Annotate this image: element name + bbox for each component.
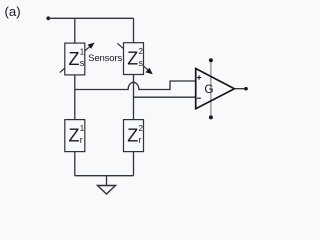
svg-text:G: G — [204, 82, 213, 96]
op-amp G (triangle) — [196, 69, 235, 109]
variable arrow of sensor Zs2 — [117, 43, 152, 74]
svg-text:2: 2 — [139, 124, 144, 133]
svg-text:s: s — [139, 58, 144, 68]
node IN (top-left terminal dot) — [46, 16, 50, 20]
svg-text:1: 1 — [80, 48, 85, 57]
svg-text:Z: Z — [127, 48, 138, 68]
svg-text:Z: Z — [127, 125, 138, 145]
wire node A to amplifier + input (with hop over right branch) — [75, 81, 196, 90]
node OUT (output terminal dot) — [244, 87, 248, 91]
svg-text:(a): (a) — [5, 4, 21, 19]
power rail bottom dot — [209, 115, 213, 119]
wire Zr2 bottom to ground rail — [133, 152, 135, 176]
svg-text:Sensors: Sensors — [88, 53, 122, 64]
wire Zs2 bottom to Zr2 top — [133, 75, 135, 120]
wire top rail — [48, 17, 133, 19]
amplifier power rail — [210, 60, 212, 117]
variable arrow of sensor Zs1 — [60, 43, 95, 73]
wire amplifier output — [234, 88, 246, 90]
svg-text:r: r — [80, 135, 83, 145]
op-amp - input marker — [197, 97, 201, 99]
sensor Zs1 (box) — [65, 43, 85, 75]
wire node B to amplifier - input — [134, 96, 196, 98]
wire Zs1 bottom to Zr1 top — [74, 75, 76, 120]
svg-text:Z: Z — [69, 49, 80, 69]
svg-text:2: 2 — [139, 47, 144, 56]
svg-text:r: r — [139, 135, 142, 145]
power rail top dot — [209, 58, 213, 62]
wire Zr1 bottom to ground rail — [74, 152, 76, 176]
reference impedance Zr2 (box) — [124, 120, 144, 152]
sensor Zs2 (box) — [124, 43, 144, 75]
wire drop to Zs2 — [133, 18, 135, 42]
wire bottom rail — [75, 175, 134, 177]
svg-text:1: 1 — [80, 124, 85, 133]
ground — [98, 186, 116, 195]
svg-text:Z: Z — [69, 125, 80, 145]
wire drop to Zs1 — [74, 18, 76, 43]
svg-text:s: s — [80, 58, 85, 68]
reference impedance Zr1 (box) — [65, 120, 85, 152]
op-amp + input marker — [197, 75, 201, 79]
wire ground stub — [106, 176, 108, 186]
